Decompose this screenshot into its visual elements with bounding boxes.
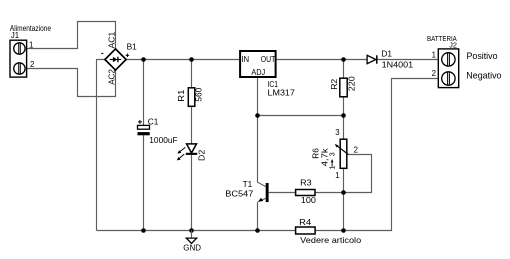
svg-text:4,7k: 4,7k	[320, 147, 330, 166]
label J1	[11, 31, 19, 40]
J1 pin 1 number	[29, 40, 33, 49]
svg-text:2: 2	[354, 146, 358, 155]
J2 pin 1 number	[432, 51, 436, 60]
label T1	[243, 179, 253, 189]
bridge plus mark	[126, 54, 130, 58]
wire C1 branch	[143, 60, 145, 231]
LED D2	[177, 144, 197, 161]
value 1N4001	[382, 59, 414, 69]
IC1 pin OUT label	[261, 55, 276, 64]
svg-text:560: 560	[194, 87, 204, 101]
bridge minus mark	[101, 52, 103, 54]
svg-text:IN: IN	[241, 55, 249, 64]
resistor R3	[296, 190, 315, 196]
wire R6 wiper return	[344, 155, 372, 193]
wire ground rail left	[97, 230, 296, 232]
svg-text:D2: D2	[196, 149, 206, 161]
label AC2	[108, 69, 117, 85]
svg-text:ADJ: ADJ	[251, 68, 265, 77]
junction R6 ground rail	[341, 228, 346, 233]
wire R2 branch	[343, 60, 345, 116]
resistor R1	[188, 88, 195, 107]
svg-text:220: 220	[346, 76, 356, 91]
trimmer R6	[335, 139, 349, 168]
wire J1 pin2 to bridge AC2	[27, 69, 116, 97]
svg-text:2: 2	[30, 60, 34, 69]
label Negativo	[466, 70, 501, 81]
bridge rectifier B1	[105, 49, 126, 70]
svg-text:100: 100	[301, 195, 316, 205]
svg-text:AC2: AC2	[108, 69, 117, 85]
svg-text:1000uF: 1000uF	[149, 135, 177, 145]
svg-text:D1: D1	[381, 49, 392, 59]
label R4	[299, 217, 311, 227]
svg-text:Positivo: Positivo	[467, 50, 498, 61]
wire R6 pin3	[343, 116, 345, 140]
R6 pin 3 number	[335, 128, 339, 137]
label Positivo	[467, 50, 498, 61]
value 220	[346, 76, 356, 91]
label Alimentazione	[10, 24, 51, 33]
value 1000uF	[149, 135, 177, 145]
label J2	[449, 41, 457, 50]
svg-text:1: 1	[335, 171, 339, 180]
svg-text:1N4001: 1N4001	[382, 59, 414, 69]
capacitor C1	[138, 125, 150, 135]
wire R3 to node	[315, 192, 344, 194]
IC1 pin IN label	[241, 55, 249, 64]
wire bridge minus to ground rail	[97, 60, 105, 231]
svg-text:1: 1	[330, 165, 337, 169]
junction R3 R6 node	[341, 190, 346, 195]
wire T1 emitter to ground rail	[258, 198, 266, 230]
wire ground rail right and up to J2 pin2	[315, 79, 438, 231]
value BC547	[225, 189, 253, 199]
junction R2 top rail	[341, 57, 346, 62]
svg-text:BC547: BC547	[225, 189, 253, 199]
label R1	[176, 89, 186, 101]
label R3	[300, 177, 312, 187]
svg-text:T1: T1	[243, 179, 253, 189]
J1 pin 2 number	[30, 60, 34, 69]
label D1	[381, 49, 392, 59]
label BATTERIA	[427, 34, 457, 43]
svg-text:R3: R3	[300, 177, 312, 187]
svg-text:1: 1	[29, 40, 33, 49]
svg-text:3: 3	[330, 152, 337, 156]
label D2	[196, 149, 206, 161]
regulator IC1 LM317	[240, 51, 276, 77]
connector J1	[10, 40, 27, 77]
label GND	[183, 243, 201, 253]
junction ADJ node right	[341, 113, 346, 118]
junction R1 top rail	[189, 57, 194, 62]
svg-text:GND: GND	[183, 243, 201, 253]
svg-text:J1: J1	[11, 31, 19, 40]
wire T1 base to R3	[269, 192, 296, 194]
junction ADJ node left	[255, 113, 260, 118]
wire IC1 ADJ pin	[257, 78, 259, 116]
svg-text:AC1: AC1	[108, 32, 117, 49]
junction C1 ground rail	[141, 228, 146, 233]
svg-text:3: 3	[335, 128, 339, 137]
wire bridge plus to IC1 IN (top rail)	[126, 59, 239, 61]
svg-text:1: 1	[432, 51, 436, 60]
junction T1 emitter ground rail	[255, 228, 260, 233]
svg-text:R4: R4	[299, 217, 311, 227]
R6 pin 2 number	[354, 146, 358, 155]
svg-text:C1: C1	[148, 116, 159, 126]
diode D1	[367, 55, 377, 63]
svg-text:B1: B1	[127, 42, 138, 52]
resistor R4	[296, 227, 316, 234]
IC1 pin ADJ label	[251, 68, 265, 77]
junction C1 top rail	[141, 57, 146, 62]
wire T1 collector	[258, 116, 266, 187]
value 560	[194, 87, 204, 101]
svg-text:LM317: LM317	[268, 88, 296, 98]
resistor R2	[340, 78, 347, 97]
R6 pin 1 number	[335, 171, 339, 180]
wire J1 pin1 to bridge AC1	[27, 22, 116, 50]
value 100	[301, 195, 316, 205]
connector J2	[438, 49, 458, 88]
value LM317	[268, 88, 296, 98]
svg-text:OUT: OUT	[261, 55, 276, 64]
junction D2 ground rail	[189, 228, 194, 233]
J2 pin 2 number	[432, 69, 436, 78]
label R6	[311, 148, 321, 159]
svg-text:R1: R1	[176, 89, 186, 101]
label B1	[127, 42, 138, 52]
label AC1	[108, 32, 117, 49]
value Vedere articolo	[300, 235, 361, 245]
svg-text:Vedere articolo: Vedere articolo	[300, 235, 361, 245]
label IC1	[268, 79, 279, 89]
wire R1 / D2 branch	[191, 60, 193, 231]
value 4,7k	[320, 147, 330, 166]
svg-text:Negativo: Negativo	[466, 70, 501, 81]
R6 direction mark 1 to 3	[330, 152, 337, 169]
wire ADJ node horizontal	[258, 115, 344, 117]
C1 plus mark	[138, 120, 142, 124]
svg-text:2: 2	[432, 69, 436, 78]
svg-text:R2: R2	[329, 78, 339, 89]
transistor T1	[258, 183, 268, 202]
ground symbol GND	[186, 231, 196, 244]
label C1	[148, 116, 159, 126]
svg-text:J2: J2	[449, 41, 457, 50]
wire R6 pin1 down to ground rail	[343, 168, 345, 230]
wire IC1 OUT to D1 and to J2 pin1	[277, 59, 439, 61]
label R2	[329, 78, 339, 89]
